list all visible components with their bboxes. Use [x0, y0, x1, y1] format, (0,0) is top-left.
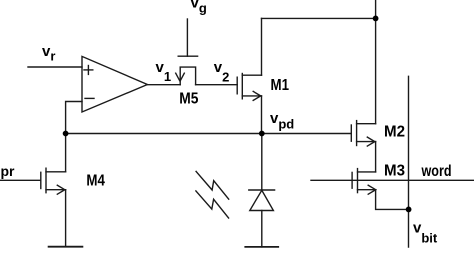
- wire M4 source to ground: [65, 190, 67, 247]
- wire supply vertical: [375, 0, 377, 124]
- ground GND2: [245, 246, 278, 248]
- node dot v_bit: [406, 207, 412, 213]
- svg-text:vpd: vpd: [270, 110, 294, 131]
- wire op-amp output to M5: [147, 84, 180, 86]
- wire M2 source to M3 drain: [375, 142, 377, 172]
- transistor M1: [237, 74, 261, 101]
- wire M4 drain up to feedback node: [65, 134, 67, 172]
- svg-text:v2: v2: [214, 59, 230, 85]
- svg-text:M4: M4: [86, 173, 105, 190]
- node dot supply junction: [373, 16, 379, 22]
- wire top rail: [262, 17, 376, 19]
- node dot feedback: [63, 131, 69, 137]
- ground GND1: [49, 246, 83, 248]
- svg-text:M1: M1: [271, 77, 290, 94]
- wire word line: [311, 179, 474, 181]
- wire v_2: [196, 84, 238, 86]
- wire M1 source to v_pd: [261, 96, 263, 134]
- svg-text:M2: M2: [384, 123, 405, 140]
- photodiode D1: [249, 134, 275, 247]
- wire v_r input: [28, 66, 82, 68]
- wire M1 drain to top rail: [261, 18, 263, 75]
- svg-text:word: word: [421, 163, 452, 180]
- svg-text:vbit: vbit: [413, 220, 438, 246]
- svg-text:M3: M3: [384, 162, 405, 179]
- node dot v_pd: [259, 131, 265, 137]
- transistor M2: [351, 121, 375, 147]
- light arrow bolt 1: [196, 171, 229, 199]
- wire op-amp minus input: [66, 102, 82, 134]
- svg-text:pr: pr: [1, 163, 16, 179]
- wire bit line: [408, 76, 410, 247]
- op-amp U1: [82, 56, 147, 112]
- svg-text:M5: M5: [179, 90, 199, 107]
- transistor M5: [176, 19, 198, 85]
- svg-text:vr: vr: [42, 43, 55, 64]
- wire M3 source to bit line: [376, 190, 409, 210]
- transistor M4: [0, 168, 66, 194]
- light arrow bolt 2: [196, 191, 229, 218]
- svg-text:vg: vg: [191, 0, 207, 15]
- wire feedback v_pd line: [66, 133, 352, 135]
- transistor M3: [352, 169, 376, 195]
- svg-text:v1: v1: [156, 59, 172, 84]
